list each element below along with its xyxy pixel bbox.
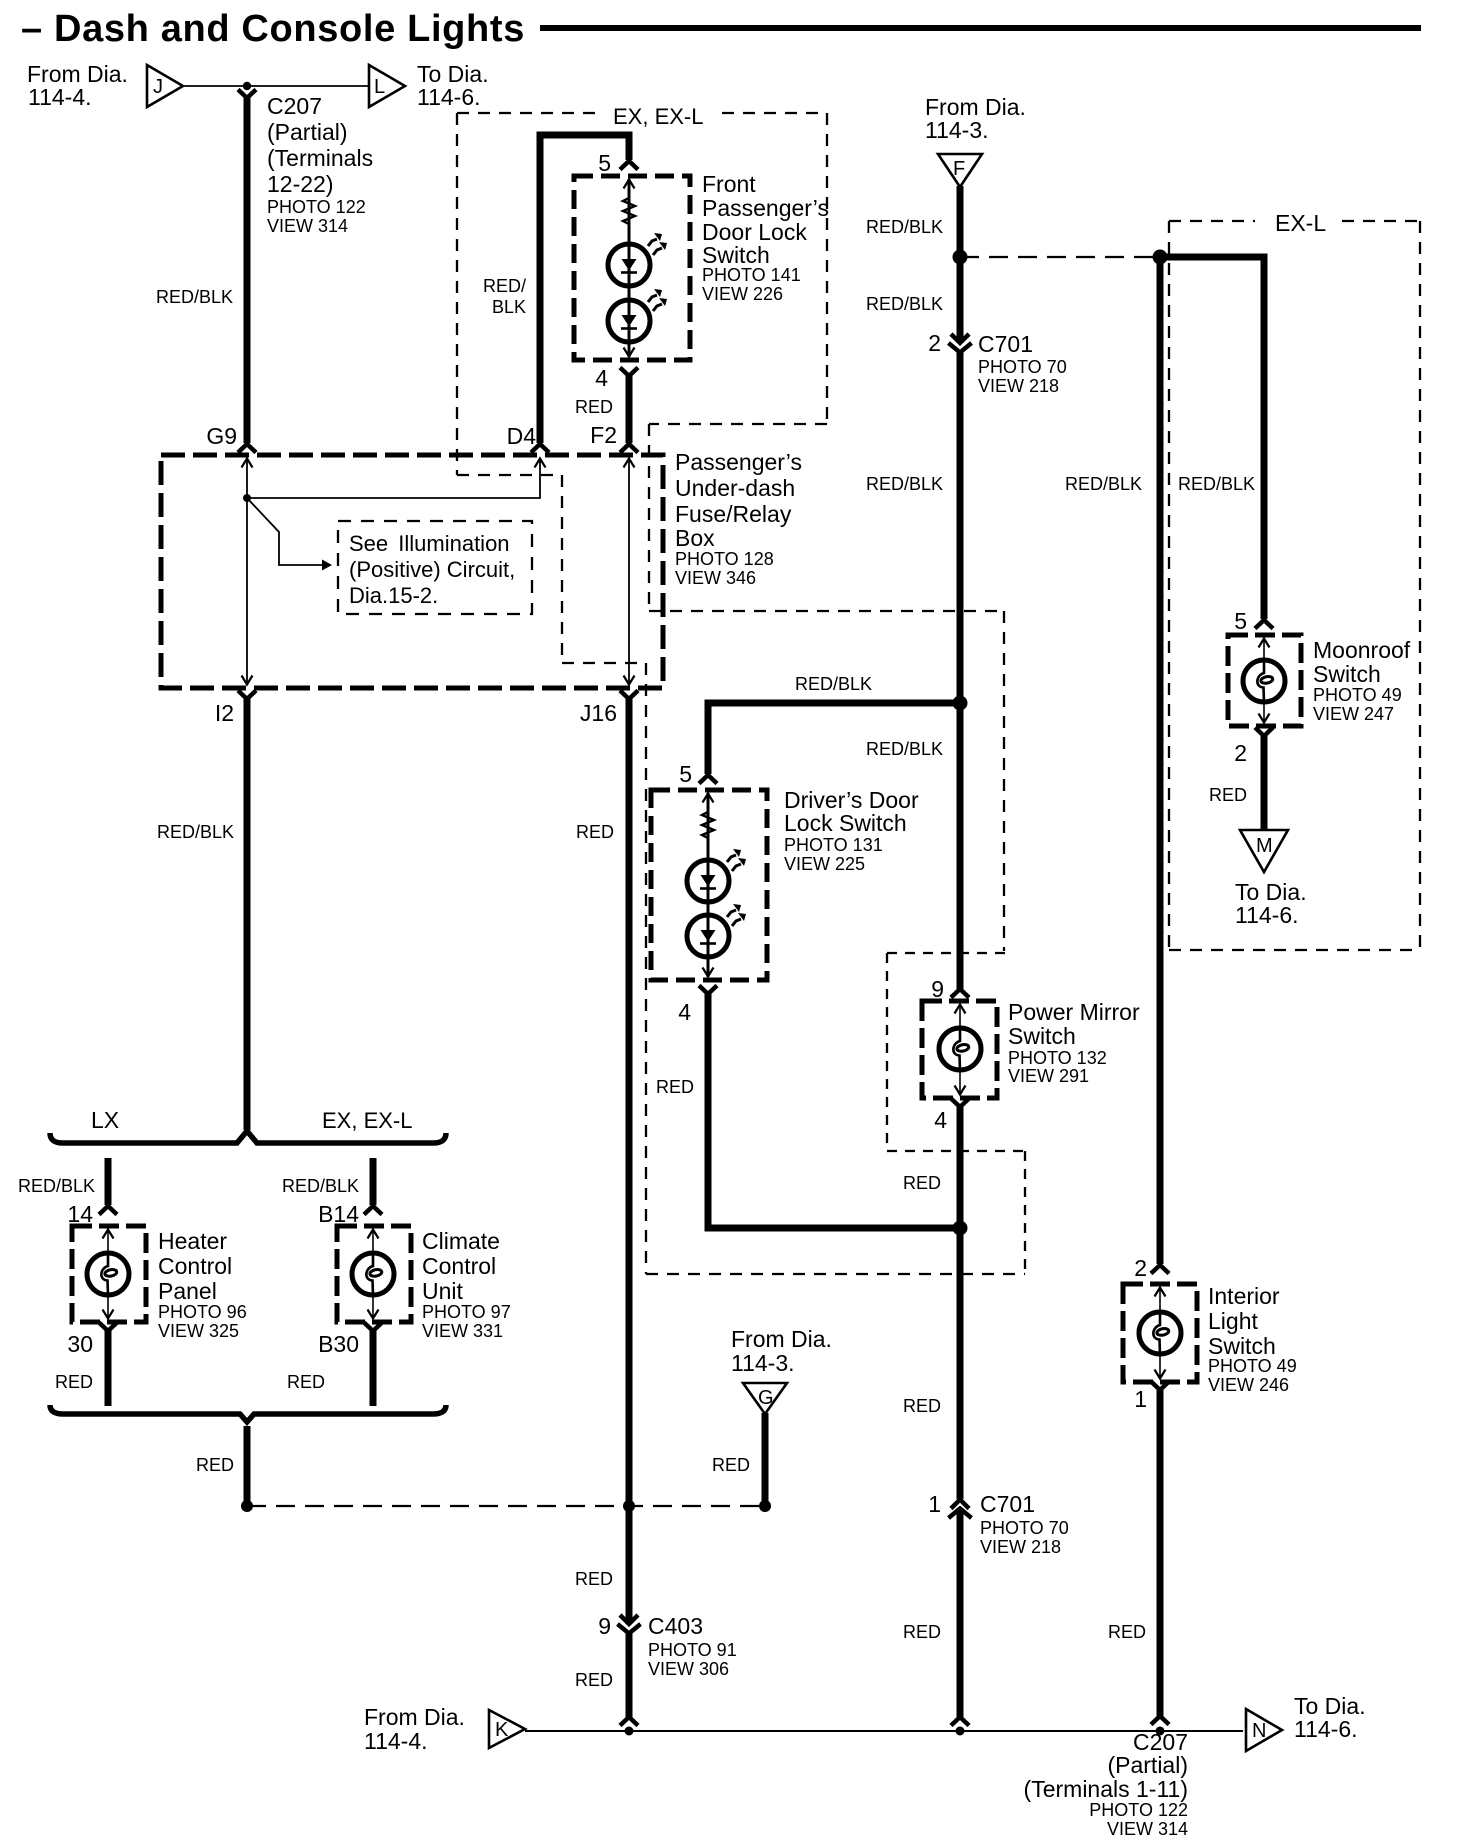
label Power Mirror Switch <box>1008 999 1140 1086</box>
bulb power mirror switch <box>939 1028 981 1070</box>
wire RED/BLK EX-L main down <box>1157 257 1164 1264</box>
svg-text:5: 5 <box>1234 608 1247 634</box>
svg-text:Lock Switch: Lock Switch <box>784 810 907 836</box>
svg-text:Climate: Climate <box>422 1228 500 1254</box>
pin 2 interior light switch <box>1151 1265 1169 1274</box>
svg-text:Control: Control <box>158 1253 232 1279</box>
LED 2 driver switch <box>687 904 746 957</box>
svg-text:VIEW 346: VIEW 346 <box>675 568 756 588</box>
svg-text:From Dia.: From Dia. <box>364 1704 465 1730</box>
svg-text:1: 1 <box>1134 1386 1147 1412</box>
svg-text:RED/BLK: RED/BLK <box>866 217 943 237</box>
svg-text:Under-dash: Under-dash <box>675 475 795 501</box>
wire RED heater down <box>105 1329 112 1406</box>
svg-text:J16: J16 <box>580 700 617 726</box>
region dashed boundary around driver's door switch <box>646 611 1025 1274</box>
bulb moonroof switch <box>1243 660 1285 702</box>
node J (From Dia. 114-4 arrow) <box>147 65 183 107</box>
svg-text:RED: RED <box>1108 1622 1146 1642</box>
svg-text:Unit: Unit <box>422 1278 464 1304</box>
svg-text:L: L <box>374 76 385 98</box>
svg-text:BLK: BLK <box>492 297 526 317</box>
svg-text:RED/BLK: RED/BLK <box>282 1176 359 1196</box>
resistor driver switch <box>702 810 714 841</box>
junction dot on bus F column <box>956 1727 965 1736</box>
svg-text:Front: Front <box>702 171 756 197</box>
C207 (Partial) label block <box>267 93 373 236</box>
pin 30 heater <box>99 1323 117 1332</box>
svg-text:PHOTO 122: PHOTO 122 <box>1089 1800 1188 1820</box>
svg-text:RED: RED <box>1209 785 1247 805</box>
svg-text:VIEW 314: VIEW 314 <box>267 216 348 236</box>
svg-text:G9: G9 <box>206 423 237 449</box>
node M (To Dia. 114-6 arrow) <box>1240 830 1288 872</box>
svg-text:VIEW 218: VIEW 218 <box>980 1537 1061 1557</box>
terminal F2 <box>620 444 638 453</box>
svg-text:1: 1 <box>928 1491 941 1517</box>
pin B30 climate <box>364 1323 382 1332</box>
wire RED/BLK I2 down to LX/EX split <box>244 697 251 1130</box>
svg-text:Power Mirror: Power Mirror <box>1008 999 1140 1025</box>
svg-text:VIEW 226: VIEW 226 <box>702 284 783 304</box>
svg-text:(Positive) Circuit,: (Positive) Circuit, <box>349 557 515 582</box>
label Passenger's Under-dash Fuse/Relay Box <box>675 449 802 588</box>
svg-text:RED: RED <box>196 1455 234 1475</box>
component box moonroof switch <box>1228 635 1301 726</box>
wire RED/BLK C701 down to junction <box>957 352 964 703</box>
svg-text:VIEW 247: VIEW 247 <box>1313 704 1394 724</box>
svg-text:RED/BLK: RED/BLK <box>1065 474 1142 494</box>
svg-text:RED: RED <box>656 1077 694 1097</box>
svg-text:VIEW 291: VIEW 291 <box>1008 1066 1089 1086</box>
svg-text:(Terminals 1-11): (Terminals 1-11) <box>1024 1776 1188 1802</box>
svg-text:VIEW 325: VIEW 325 <box>158 1321 239 1341</box>
svg-text:K: K <box>495 1719 509 1741</box>
svg-text:RED: RED <box>576 822 614 842</box>
svg-text:RED: RED <box>575 397 613 417</box>
terminal I2 <box>238 691 256 700</box>
component box heater control panel <box>72 1226 146 1322</box>
svg-text:12-22): 12-22) <box>267 171 333 197</box>
label Front Passenger's Door Lock Switch <box>702 171 829 304</box>
wire RED/BLK to driver's door lock switch <box>708 703 960 774</box>
svg-text:PHOTO 141: PHOTO 141 <box>702 265 801 285</box>
region dotted boundary around power mirror switch <box>887 953 1025 1274</box>
label Interior Light Switch <box>1208 1283 1297 1395</box>
pin 5 front passenger door lock switch <box>620 161 638 170</box>
junction dot on bus <box>625 1727 634 1736</box>
svg-text:EX, EX-L: EX, EX-L <box>613 104 703 129</box>
svg-text:30: 30 <box>67 1331 93 1357</box>
svg-text:Moonroof: Moonroof <box>1313 637 1411 663</box>
svg-text:D4: D4 <box>507 423 537 449</box>
svg-text:Heater: Heater <box>158 1228 227 1254</box>
svg-text:2: 2 <box>1134 1255 1147 1281</box>
svg-text:PHOTO 91: PHOTO 91 <box>648 1640 737 1660</box>
junction dot on J16 wire <box>623 1500 635 1512</box>
svg-text:Passenger’s: Passenger’s <box>702 195 829 221</box>
svg-text:9: 9 <box>598 1613 611 1639</box>
node L (To Dia. 114-6 arrow) <box>369 65 405 107</box>
svg-text:PHOTO 131: PHOTO 131 <box>784 835 883 855</box>
svg-text:RED/BLK: RED/BLK <box>866 739 943 759</box>
pin 4 driver's door lock switch <box>699 986 717 995</box>
svg-text:114-4.: 114-4. <box>28 84 92 110</box>
wire RED interior switch to bus <box>1157 1388 1164 1716</box>
junction dot RED bus left <box>241 1500 253 1512</box>
terminal J16 <box>620 691 638 700</box>
svg-text:(Partial): (Partial) <box>267 119 348 145</box>
connector C701 pin 1 <box>949 1500 972 1519</box>
svg-text:Dia.15-2.: Dia.15-2. <box>349 583 438 608</box>
connector C207 terminal symbol <box>238 90 256 99</box>
wire RED C701 pin1 to bus <box>957 1510 964 1717</box>
wire RED moonroof down <box>1261 734 1268 831</box>
wire RED climate down <box>370 1329 377 1406</box>
pin 5 driver's door lock switch <box>699 775 717 784</box>
svg-text:Light: Light <box>1208 1308 1258 1334</box>
svg-text:PHOTO 70: PHOTO 70 <box>978 357 1067 377</box>
terminal D4 <box>531 444 549 453</box>
svg-text:114-4.: 114-4. <box>364 1728 428 1754</box>
component box climate control unit <box>337 1226 411 1322</box>
svg-text:RED: RED <box>903 1622 941 1642</box>
internal pointer to illumination note <box>247 498 322 565</box>
wire branch to moonroof switch <box>1160 257 1264 619</box>
label Driver's Door Lock Switch <box>784 787 919 874</box>
dashed RED link wire <box>247 1505 765 1507</box>
svg-text:RED/BLK: RED/BLK <box>156 287 233 307</box>
svg-text:9: 9 <box>931 976 944 1002</box>
svg-text:EX, EX-L: EX, EX-L <box>322 1108 412 1133</box>
region EX, EX-L dashed boundary (top) <box>457 113 827 663</box>
svg-text:2: 2 <box>928 330 941 356</box>
dashed link wire to EX-L <box>960 256 1160 258</box>
svg-text:C701: C701 <box>978 331 1033 357</box>
pin 14 heater <box>99 1206 117 1215</box>
internal arrow line G9 to I2 <box>246 458 248 685</box>
svg-text:PHOTO 70: PHOTO 70 <box>980 1518 1069 1538</box>
wire RED/BLK from F down <box>957 186 964 342</box>
svg-text:2: 2 <box>1234 740 1247 766</box>
junction dot below G <box>759 1500 771 1512</box>
pin 9 power mirror switch <box>951 989 969 998</box>
wire RED/BLK to heater control panel <box>105 1158 112 1205</box>
wire RED power mirror down <box>957 1105 964 1228</box>
wire RED/BLK to climate control unit <box>370 1158 377 1205</box>
junction dot on J-L wire <box>243 82 251 90</box>
svg-text:114-3.: 114-3. <box>925 117 989 143</box>
svg-text:J: J <box>153 76 163 98</box>
svg-text:114-6.: 114-6. <box>1235 902 1299 928</box>
svg-text:Fuse/Relay: Fuse/Relay <box>675 501 792 527</box>
wire J to L <box>183 85 369 87</box>
svg-text:Interior: Interior <box>1208 1283 1280 1309</box>
svg-text:RED/BLK: RED/BLK <box>866 294 943 314</box>
junction dot inside fuse box <box>243 494 251 502</box>
svg-text:I2: I2 <box>215 700 234 726</box>
LED 1 driver switch <box>687 849 746 902</box>
C207 (Terminals 1-11) label block <box>1024 1729 1188 1839</box>
svg-text:Switch: Switch <box>1313 661 1381 687</box>
svg-text:RED/BLK: RED/BLK <box>157 822 234 842</box>
svg-text:RED/BLK: RED/BLK <box>1178 474 1255 494</box>
svg-text:M: M <box>1256 835 1273 857</box>
junction dot EX-L feed <box>1153 250 1168 265</box>
label Moonroof Switch <box>1313 637 1411 724</box>
svg-text:RED/BLK: RED/BLK <box>18 1176 95 1196</box>
bulb climate <box>352 1253 394 1295</box>
wire RED C403 to bus <box>626 1633 633 1717</box>
internal line with arrows <box>628 179 631 357</box>
wire RED from G down <box>762 1413 769 1503</box>
svg-text:114-6.: 114-6. <box>1294 1716 1358 1742</box>
terminal G9 <box>238 444 256 453</box>
wire RED pin4 to F2 <box>626 374 633 443</box>
junction dot lower driver branch <box>953 1221 968 1236</box>
bulb heater <box>87 1253 129 1295</box>
title rule line <box>540 25 1421 31</box>
svg-text:B14: B14 <box>318 1201 359 1227</box>
svg-text:VIEW 306: VIEW 306 <box>648 1659 729 1679</box>
svg-text:EX-L: EX-L <box>1275 210 1326 236</box>
svg-text:VIEW 331: VIEW 331 <box>422 1321 503 1341</box>
svg-text:B30: B30 <box>318 1331 359 1357</box>
component box front passenger's door lock switch <box>574 176 690 360</box>
LED 1 <box>608 233 667 286</box>
svg-text:(Terminals: (Terminals <box>267 145 373 171</box>
join brace below heater/climate <box>50 1405 446 1422</box>
pin 1 interior light switch <box>1151 1382 1169 1391</box>
svg-text:5: 5 <box>598 150 611 176</box>
bulb interior light switch <box>1139 1312 1181 1354</box>
label Climate Control Unit <box>422 1228 511 1341</box>
wire RED/BLK from C207 to G9 <box>244 97 251 443</box>
svg-text:14: 14 <box>67 1201 93 1227</box>
svg-text:PHOTO 128: PHOTO 128 <box>675 549 774 569</box>
LED 2 <box>608 289 667 342</box>
svg-text:VIEW 246: VIEW 246 <box>1208 1375 1289 1395</box>
svg-text:(Partial): (Partial) <box>1107 1752 1188 1778</box>
svg-text:PHOTO 49: PHOTO 49 <box>1208 1356 1297 1376</box>
svg-text:RED: RED <box>903 1173 941 1193</box>
svg-text:114-3.: 114-3. <box>731 1350 795 1376</box>
internal arrow line F2 to J16 <box>628 458 630 685</box>
pin B14 climate <box>364 1206 382 1215</box>
svg-text:4: 4 <box>678 999 691 1025</box>
resistor <box>623 196 635 227</box>
pin 4 front passenger switch <box>620 368 638 377</box>
svg-text:PHOTO 49: PHOTO 49 <box>1313 685 1402 705</box>
region EX-L dashed boundary (right) <box>1169 221 1420 950</box>
svg-text:RED: RED <box>55 1372 93 1392</box>
svg-text:RED: RED <box>575 1670 613 1690</box>
pin 4 power mirror switch <box>951 1099 969 1108</box>
wire RED J16 down to C403 and bus <box>626 697 633 1621</box>
svg-text:4: 4 <box>595 365 608 391</box>
svg-text:PHOTO 132: PHOTO 132 <box>1008 1048 1107 1068</box>
svg-text:4: 4 <box>934 1107 947 1133</box>
svg-text:Switch: Switch <box>1008 1023 1076 1049</box>
svg-text:RED/BLK: RED/BLK <box>795 674 872 694</box>
label Heater Control Panel <box>158 1228 247 1341</box>
svg-text:RED/BLK: RED/BLK <box>866 474 943 494</box>
internal line dot to D4 <box>247 459 540 498</box>
svg-text:See Illumination: See Illumination <box>349 531 510 556</box>
svg-text:Panel: Panel <box>158 1278 217 1304</box>
svg-text:RED: RED <box>903 1396 941 1416</box>
pin 2 moonroof switch <box>1255 728 1273 737</box>
svg-text:Box: Box <box>675 525 715 551</box>
svg-text:Passenger’s: Passenger’s <box>675 449 802 475</box>
svg-text:VIEW 225: VIEW 225 <box>784 854 865 874</box>
svg-text:VIEW 218: VIEW 218 <box>978 376 1059 396</box>
svg-text:Control: Control <box>422 1253 496 1279</box>
split brace LX / EX,EX-L <box>50 1131 446 1143</box>
svg-text:N: N <box>1252 1720 1266 1742</box>
wire RED/BLK junction down to power mirror pin 9 <box>957 703 964 989</box>
component box driver's door lock switch <box>651 790 767 980</box>
junction dot driver branch <box>953 696 968 711</box>
svg-text:LX: LX <box>91 1107 119 1133</box>
svg-text:RED: RED <box>575 1569 613 1589</box>
svg-text:C207: C207 <box>267 93 322 119</box>
component box interior light switch <box>1123 1284 1197 1382</box>
wire D4 branch to passenger door lock switch <box>540 135 629 443</box>
wire RED junction down to C701 pin 1 <box>957 1228 964 1499</box>
pin 5 moonroof switch <box>1255 620 1273 629</box>
svg-text:C403: C403 <box>648 1613 703 1639</box>
junction dot at EX-L branch <box>953 250 968 265</box>
wire RED from join brace down <box>244 1426 251 1503</box>
connector C701 pin 2 <box>949 334 972 353</box>
component box power mirror switch <box>922 1001 997 1098</box>
svg-text:F2: F2 <box>590 422 617 448</box>
svg-text:RED/: RED/ <box>483 276 526 296</box>
passenger's under-dash fuse/relay box <box>161 455 663 688</box>
svg-text:PHOTO 122: PHOTO 122 <box>267 197 366 217</box>
svg-text:VIEW 314: VIEW 314 <box>1107 1819 1188 1839</box>
svg-text:PHOTO 97: PHOTO 97 <box>422 1302 511 1322</box>
svg-text:F: F <box>953 158 965 180</box>
bus connector chevron interior column <box>1151 1716 1169 1725</box>
see illumination note box <box>338 521 532 614</box>
svg-text:114-6.: 114-6. <box>417 84 481 110</box>
svg-text:PHOTO 96: PHOTO 96 <box>158 1302 247 1322</box>
svg-text:RED: RED <box>287 1372 325 1392</box>
svg-text:5: 5 <box>679 761 692 787</box>
svg-text:– Dash and Console Lights: – Dash and Console Lights <box>21 8 525 50</box>
bus connector chevron at F column <box>951 1717 969 1726</box>
wire RED driver pin4 down and right <box>708 992 956 1228</box>
node N (To Dia. 114-6 arrow) <box>1246 1709 1282 1751</box>
svg-text:RED: RED <box>712 1455 750 1475</box>
junction dot on bus interior column <box>1156 1727 1165 1736</box>
svg-text:G: G <box>758 1387 774 1409</box>
connector C403 pin 9 <box>618 1615 641 1634</box>
svg-text:From Dia.: From Dia. <box>731 1326 832 1352</box>
bottom bus wire <box>525 1730 1243 1732</box>
bus connector chevron at J16 column <box>620 1717 638 1726</box>
svg-text:C701: C701 <box>980 1491 1035 1517</box>
